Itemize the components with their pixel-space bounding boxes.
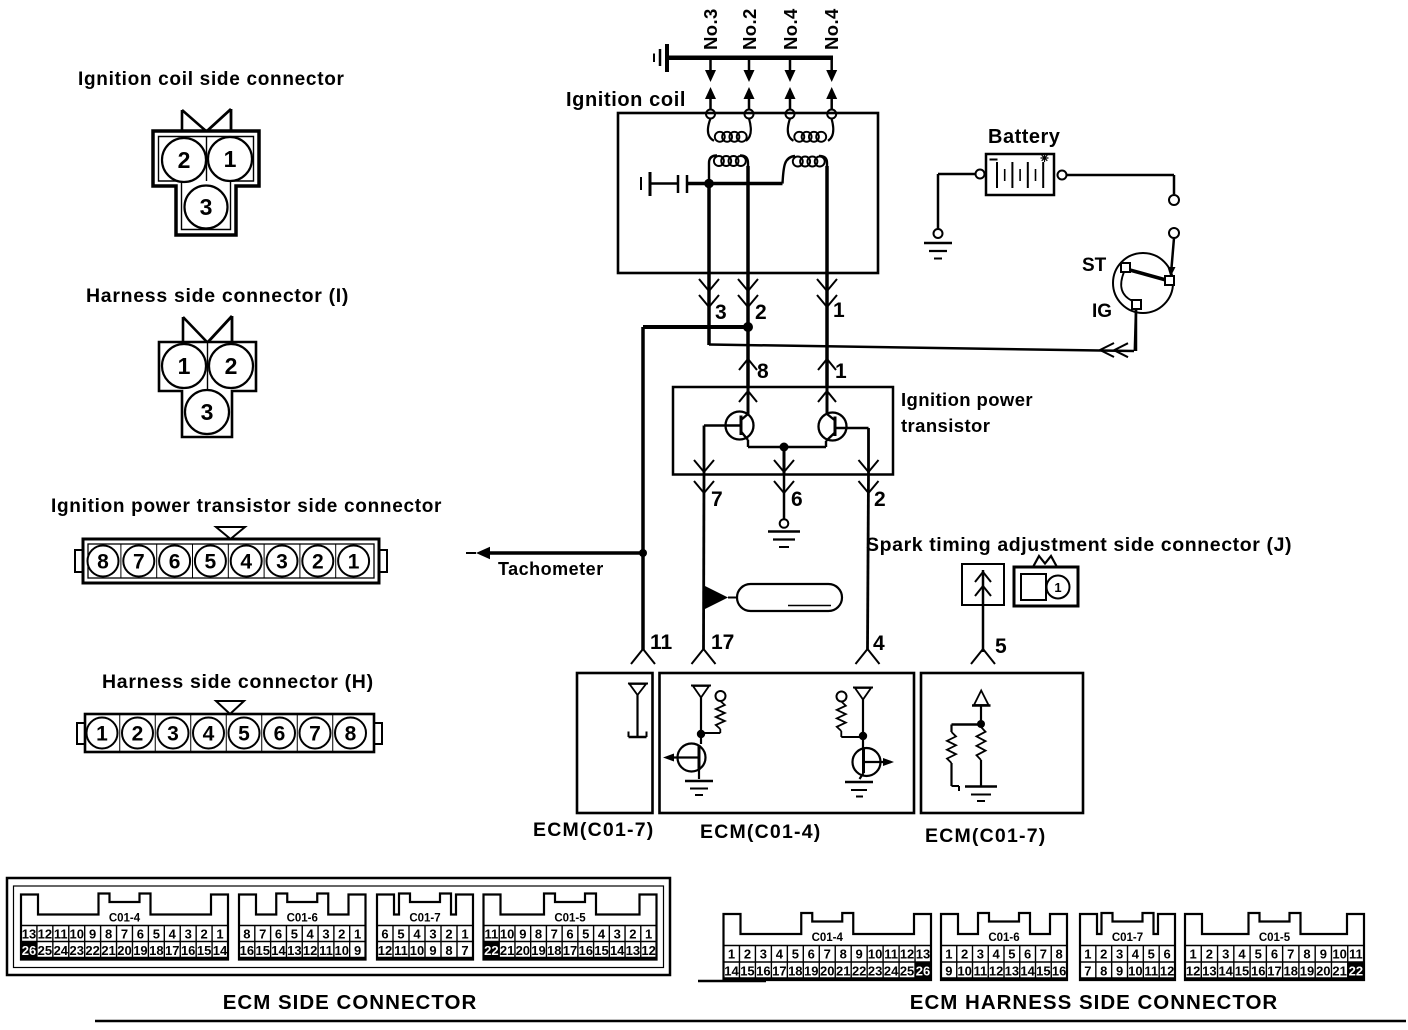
- wire: IG terminal down: [1135, 309, 1138, 351]
- svg-text:5: 5: [238, 723, 250, 746]
- svg-text:17: 17: [772, 964, 786, 979]
- svg-text:C01-5: C01-5: [1259, 932, 1291, 944]
- svg-text:5: 5: [1148, 947, 1155, 962]
- svg-text:3: 3: [614, 927, 621, 942]
- svg-text:11: 11: [394, 943, 408, 958]
- junction: [639, 549, 647, 557]
- svg-text:11: 11: [484, 927, 498, 942]
- svg-text:14: 14: [610, 943, 625, 958]
- pin 3: [154, 714, 156, 752]
- wire: plug lead down-arrow: [748, 58, 751, 71]
- svg-text:17: 17: [165, 943, 179, 958]
- svg-text:1: 1: [1190, 947, 1197, 962]
- ECM box (C01-7 left): [577, 673, 653, 813]
- switch terminal: [1169, 195, 1179, 205]
- svg-text:18: 18: [149, 943, 163, 958]
- pin 2: [119, 714, 121, 752]
- svg-text:8: 8: [105, 927, 112, 942]
- svg-text:Ignition power: Ignition power: [901, 389, 1033, 410]
- svg-text:15: 15: [1235, 964, 1249, 979]
- svg-text:3: 3: [200, 194, 213, 220]
- svg-text:8: 8: [535, 927, 542, 942]
- ECM side connector outer frame: [7, 878, 670, 975]
- svg-text:6: 6: [791, 488, 803, 511]
- svg-text:1: 1: [945, 947, 952, 962]
- wire 17: to ECM pin 17: [702, 475, 705, 650]
- connector: harness side (H) (pins 1..8): [77, 701, 382, 752]
- svg-text:19: 19: [1300, 964, 1314, 979]
- pin 1: [208, 137, 252, 181]
- wire: coil tower up-arrow: [705, 87, 716, 99]
- svg-text:11: 11: [54, 927, 68, 942]
- svg-text:13: 13: [626, 943, 640, 958]
- resistor: [716, 701, 725, 729]
- keying triangles: [182, 110, 206, 131]
- coil HT terminal: [827, 110, 836, 119]
- svg-text:23: 23: [69, 943, 83, 958]
- connector block C01-7: [1080, 913, 1175, 980]
- ECM pin 4 internal: pull-up + transistor: [837, 688, 895, 797]
- contact B: [1165, 276, 1174, 285]
- svg-text:2: 2: [1206, 947, 1213, 962]
- battery BAT: [976, 154, 1067, 195]
- svg-text:9: 9: [519, 927, 526, 942]
- cell divider: [206, 137, 208, 182]
- svg-text:1: 1: [833, 299, 845, 322]
- wire: plug lead down-arrow: [789, 58, 792, 71]
- pin 5: [192, 544, 194, 578]
- svg-text:Battery: Battery: [988, 126, 1061, 148]
- pin 1: [87, 718, 118, 749]
- wire 1: coil pin1 down to power transistor pin1: [825, 166, 829, 387]
- plus terminal mark: [1041, 154, 1049, 162]
- svg-text:7: 7: [824, 947, 831, 962]
- svg-text:Spark timing adjustment side c: Spark timing adjustment side connector (…: [866, 534, 1292, 556]
- connector: harness side (I) (pins 1,2,3): [159, 316, 256, 437]
- wire: coil tower up-arrow: [744, 87, 755, 99]
- svg-text:21: 21: [836, 964, 850, 979]
- svg-text:Harness side connector (H): Harness side connector (H): [102, 671, 374, 693]
- wire: emitters common: [748, 446, 826, 449]
- svg-text:1: 1: [461, 927, 468, 942]
- spark timing adjustment terminal box: [962, 564, 1004, 605]
- svg-text:7: 7: [551, 927, 558, 942]
- ECM pin 17 internal: pull-up + transistor: [663, 686, 726, 796]
- svg-text:4: 4: [873, 632, 885, 655]
- svg-text:3: 3: [429, 927, 436, 942]
- wire: battery negative to ground: [938, 173, 976, 176]
- svg-text:5: 5: [153, 927, 160, 942]
- svg-text:Harness side connector (I): Harness side connector (I): [86, 285, 349, 307]
- connector block C01-6: [239, 894, 366, 960]
- svg-text:6: 6: [274, 723, 286, 746]
- svg-text:15: 15: [1036, 964, 1050, 979]
- svg-text:20: 20: [820, 964, 834, 979]
- svg-text:10: 10: [69, 927, 83, 942]
- svg-text:6: 6: [137, 927, 144, 942]
- svg-text:2: 2: [755, 301, 767, 324]
- svg-text:1: 1: [348, 551, 360, 574]
- wire 2: base lead out (right): [867, 428, 870, 475]
- svg-text:IG: IG: [1092, 301, 1112, 322]
- capacitor C (condenser) with chassis ground: [640, 177, 642, 190]
- svg-text:14: 14: [1218, 964, 1233, 979]
- wire 4: to ECM pin 4: [868, 475, 869, 650]
- wire 2: coil pin2 down to power transistor pin8: [746, 166, 750, 387]
- svg-text:6: 6: [566, 927, 573, 942]
- pin 4: [190, 714, 192, 752]
- svg-text:12: 12: [989, 964, 1003, 979]
- svg-text:3: 3: [977, 947, 984, 962]
- keying triangles: [183, 317, 207, 342]
- svg-text:2: 2: [132, 723, 144, 746]
- svg-text:3: 3: [1116, 947, 1123, 962]
- svg-text:ECM(C01-7): ECM(C01-7): [925, 825, 1046, 847]
- svg-text:1: 1: [728, 947, 735, 962]
- svg-text:22: 22: [852, 964, 866, 979]
- svg-text:20: 20: [516, 943, 530, 958]
- svg-text:22: 22: [484, 943, 498, 958]
- svg-text:8: 8: [840, 947, 847, 962]
- wire: coil tower up-arrow: [785, 87, 796, 99]
- svg-text:9: 9: [856, 947, 863, 962]
- svg-text:22: 22: [1349, 964, 1363, 979]
- svg-text:9: 9: [89, 927, 96, 942]
- svg-text:12: 12: [1186, 964, 1200, 979]
- svg-text:6: 6: [1271, 947, 1278, 962]
- pin 7: [296, 714, 298, 752]
- svg-text:10: 10: [500, 927, 514, 942]
- svg-text:20: 20: [1316, 964, 1330, 979]
- svg-text:Ignition power transistor side: Ignition power transistor side connector: [51, 496, 442, 517]
- wire: to ignition switch IG: [709, 345, 1134, 352]
- wire 7: base lead out: [703, 426, 706, 475]
- side tabs: [77, 723, 85, 744]
- svg-text:8: 8: [1056, 947, 1063, 962]
- svg-text:11: 11: [1144, 964, 1158, 979]
- svg-text:13: 13: [1005, 964, 1019, 979]
- svg-text:3: 3: [201, 399, 214, 425]
- svg-text:4: 4: [203, 723, 215, 746]
- ground: transistor emitter ground: [780, 519, 789, 528]
- contact IG: [1132, 300, 1141, 309]
- coil T2 secondary winding: [788, 119, 794, 141]
- svg-text:4: 4: [413, 927, 421, 942]
- svg-text:4: 4: [169, 927, 177, 942]
- svg-text:C01-7: C01-7: [409, 913, 440, 925]
- svg-text:25: 25: [900, 964, 914, 979]
- connector block C01-5: [1185, 913, 1364, 980]
- wiper: [1128, 270, 1166, 281]
- svg-text:8: 8: [345, 723, 357, 746]
- pin 6: [156, 544, 158, 578]
- svg-text:16: 16: [181, 943, 195, 958]
- svg-text:5: 5: [582, 927, 589, 942]
- svg-text:13: 13: [1202, 964, 1216, 979]
- svg-text:6: 6: [808, 947, 815, 962]
- wire: spark plug bus: [665, 55, 833, 60]
- svg-text:ECM(C01-7): ECM(C01-7): [533, 819, 654, 841]
- connector block C01-4: [724, 913, 932, 980]
- svg-text:2: 2: [961, 947, 968, 962]
- direction chevrons: [774, 460, 794, 472]
- svg-text:5: 5: [792, 947, 799, 962]
- rule: [698, 980, 766, 983]
- svg-text:13: 13: [916, 947, 930, 962]
- svg-text:1: 1: [835, 360, 847, 383]
- svg-text:18: 18: [788, 964, 802, 979]
- wire 11: to ECM pin 11: [631, 649, 655, 664]
- svg-text:9: 9: [354, 943, 361, 958]
- svg-text:9: 9: [429, 943, 436, 958]
- wire: plug lead down-arrow: [709, 58, 712, 71]
- svg-text:1: 1: [224, 146, 237, 172]
- pin 7: [120, 544, 122, 578]
- svg-text:8: 8: [1303, 947, 1310, 962]
- svg-text:9: 9: [1320, 947, 1327, 962]
- svg-text:19: 19: [133, 943, 147, 958]
- wire 6 to ground: [783, 475, 786, 520]
- svg-text:4: 4: [598, 927, 606, 942]
- svg-text:21: 21: [101, 943, 115, 958]
- switch terminal: [1169, 228, 1179, 238]
- svg-text:ST: ST: [1082, 255, 1107, 276]
- svg-text:2: 2: [874, 488, 886, 511]
- svg-text:21: 21: [1332, 964, 1346, 979]
- svg-text:14: 14: [271, 943, 286, 958]
- svg-text:1: 1: [96, 723, 108, 746]
- ground: spark plug bus ground: [665, 44, 669, 72]
- svg-text:7: 7: [259, 927, 266, 942]
- svg-text:9: 9: [1116, 964, 1123, 979]
- svg-text:No.4: No.4: [821, 8, 842, 50]
- svg-text:6: 6: [1024, 947, 1031, 962]
- svg-text:1: 1: [1084, 947, 1091, 962]
- ground: [965, 785, 997, 788]
- pin 5: [225, 714, 227, 752]
- connector block C01-5: [484, 894, 657, 960]
- ignition coil box: [618, 113, 878, 273]
- svg-text:11: 11: [650, 631, 673, 654]
- svg-text:25: 25: [38, 943, 52, 958]
- connector block C01-4: [21, 894, 228, 960]
- svg-text:11: 11: [974, 964, 988, 979]
- svg-text:8: 8: [97, 551, 109, 574]
- svg-text:17: 17: [711, 631, 734, 654]
- svg-text:10: 10: [957, 964, 971, 979]
- svg-text:transistor: transistor: [901, 415, 990, 436]
- junction: [780, 443, 789, 452]
- resistor: [947, 732, 956, 763]
- coil T2 primary winding: [783, 156, 796, 184]
- svg-text:7: 7: [711, 488, 723, 511]
- svg-text:22: 22: [85, 943, 99, 958]
- cell divider: [207, 342, 209, 391]
- junction: [704, 179, 714, 189]
- transistor Q2: [819, 387, 869, 447]
- svg-text:13: 13: [22, 927, 36, 942]
- svg-text:15: 15: [594, 943, 608, 958]
- svg-text:1: 1: [354, 927, 361, 942]
- pin 3: [263, 544, 265, 578]
- svg-text:No.2: No.2: [739, 8, 760, 50]
- svg-text:No.4: No.4: [780, 8, 801, 50]
- svg-text:19: 19: [531, 943, 545, 958]
- svg-text:19: 19: [804, 964, 818, 979]
- svg-text:2: 2: [445, 927, 452, 942]
- svg-text:15: 15: [197, 943, 211, 958]
- wire 3: coil pin3 to IG switch: [707, 184, 711, 346]
- svg-text:12: 12: [303, 943, 317, 958]
- svg-text:12: 12: [1160, 964, 1174, 979]
- svg-text:2: 2: [744, 947, 751, 962]
- svg-text:4: 4: [1132, 947, 1140, 962]
- ground: [845, 781, 873, 784]
- pin 8: [332, 714, 334, 752]
- svg-text:14: 14: [1020, 964, 1035, 979]
- minus terminal mark: [990, 159, 998, 161]
- svg-text:6: 6: [169, 551, 181, 574]
- coil HT terminal: [786, 110, 795, 119]
- svg-text:C01-4: C01-4: [109, 913, 141, 925]
- svg-text:1: 1: [645, 927, 652, 942]
- svg-text:5: 5: [1008, 947, 1015, 962]
- svg-text:1: 1: [1054, 580, 1061, 595]
- svg-text:C01-6: C01-6: [988, 932, 1019, 944]
- svg-text:ECM(C01-4): ECM(C01-4): [700, 821, 821, 843]
- svg-text:No.3: No.3: [700, 8, 721, 50]
- pin 1: [335, 544, 337, 578]
- svg-text:12: 12: [378, 943, 392, 958]
- svg-text:C01-6: C01-6: [287, 913, 318, 925]
- svg-text:12: 12: [38, 927, 52, 942]
- svg-text:9: 9: [945, 964, 952, 979]
- svg-text:15: 15: [255, 943, 269, 958]
- svg-text:3: 3: [1222, 947, 1229, 962]
- svg-text:3: 3: [322, 927, 329, 942]
- pin 4: [227, 544, 229, 578]
- pin 2: [209, 344, 253, 388]
- svg-text:Tachometer: Tachometer: [498, 559, 604, 579]
- svg-text:5: 5: [397, 927, 404, 942]
- wire: battery positive to ignition switch: [1067, 174, 1175, 177]
- index triangle: [216, 527, 245, 539]
- svg-text:8: 8: [757, 360, 769, 383]
- svg-text:5: 5: [1255, 947, 1262, 962]
- svg-text:11: 11: [319, 943, 333, 958]
- wire 5: to ECM pin 5: [982, 605, 985, 652]
- svg-text:C01-7: C01-7: [1112, 932, 1143, 944]
- pin 8: [88, 546, 119, 577]
- svg-text:7: 7: [309, 723, 321, 746]
- svg-text:3: 3: [276, 551, 288, 574]
- transistor Q1: [704, 387, 754, 447]
- svg-text:8: 8: [1100, 964, 1107, 979]
- noise filter capsule: [705, 586, 728, 609]
- svg-text:13: 13: [287, 943, 301, 958]
- ground: battery ground: [934, 229, 943, 238]
- svg-text:1: 1: [178, 353, 191, 379]
- pin 2: [162, 138, 206, 182]
- svg-text:16: 16: [240, 943, 254, 958]
- svg-text:ECM HARNESS SIDE CONNECTOR: ECM HARNESS SIDE CONNECTOR: [910, 991, 1278, 1014]
- wire: plug lead down-arrow: [830, 58, 833, 71]
- resistor: [837, 702, 846, 732]
- svg-text:7: 7: [1040, 947, 1047, 962]
- svg-text:23: 23: [868, 964, 882, 979]
- coil HT terminal: [745, 110, 754, 119]
- svg-text:4: 4: [776, 947, 784, 962]
- svg-text:16: 16: [1251, 964, 1265, 979]
- svg-text:C01-4: C01-4: [812, 932, 844, 944]
- svg-text:3: 3: [185, 927, 192, 942]
- ECM pin 11 internal: input terminator: [628, 684, 648, 738]
- resistor: [977, 727, 986, 760]
- pin 3: [185, 186, 228, 229]
- contact ST: [1121, 263, 1130, 272]
- svg-text:8: 8: [445, 943, 452, 958]
- connector: ignition power transistor side (pins 8..1): [75, 527, 387, 583]
- svg-text:10: 10: [1128, 964, 1142, 979]
- connector: ignition coil side (pins 2,1,3): [153, 109, 259, 235]
- coil T1 primary winding: [709, 156, 717, 184]
- wire 6: emitter to ground: [783, 447, 786, 475]
- junction: [743, 322, 753, 332]
- svg-text:5: 5: [995, 635, 1007, 658]
- wire: tachometer feed: [489, 551, 643, 555]
- svg-text:24: 24: [54, 943, 69, 958]
- bottom rule: [95, 1020, 1406, 1023]
- svg-text:2: 2: [338, 927, 345, 942]
- transistor: [678, 744, 706, 772]
- svg-text:17: 17: [563, 943, 577, 958]
- svg-text:ECM SIDE CONNECTOR: ECM SIDE CONNECTOR: [223, 991, 478, 1014]
- svg-text:7: 7: [1287, 947, 1294, 962]
- svg-text:10: 10: [410, 943, 424, 958]
- svg-text:11: 11: [884, 947, 898, 962]
- wire: coil tower up-arrow: [826, 87, 837, 99]
- svg-text:16: 16: [578, 943, 592, 958]
- svg-text:Ignition coil side connector: Ignition coil side connector: [78, 69, 345, 90]
- svg-text:24: 24: [884, 964, 899, 979]
- pull-up circle: [716, 691, 726, 701]
- svg-text:3: 3: [167, 723, 179, 746]
- svg-text:4: 4: [1238, 947, 1246, 962]
- svg-text:4: 4: [240, 551, 252, 574]
- svg-text:4: 4: [993, 947, 1001, 962]
- svg-text:10: 10: [1332, 947, 1346, 962]
- svg-text:16: 16: [1052, 964, 1066, 979]
- ground: [685, 780, 713, 783]
- ECM pin 5 internal: divider resistors: [947, 691, 997, 802]
- svg-text:16: 16: [756, 964, 770, 979]
- svg-text:10: 10: [335, 943, 349, 958]
- svg-text:26: 26: [22, 943, 36, 958]
- svg-text:14: 14: [213, 943, 228, 958]
- svg-text:3: 3: [760, 947, 767, 962]
- svg-text:8: 8: [243, 927, 250, 942]
- svg-text:12: 12: [900, 947, 914, 962]
- svg-text:12: 12: [641, 943, 655, 958]
- connector block C01-6: [941, 913, 1067, 980]
- connector block C01-7: [377, 894, 473, 960]
- pull-up circle: [837, 692, 847, 702]
- wire: tachometer branch: [643, 325, 748, 329]
- svg-text:4: 4: [307, 927, 315, 942]
- coil HT terminal: [706, 110, 715, 119]
- ECM box (C01-7 right): [921, 673, 1083, 813]
- svg-text:Ignition coil: Ignition coil: [566, 89, 686, 111]
